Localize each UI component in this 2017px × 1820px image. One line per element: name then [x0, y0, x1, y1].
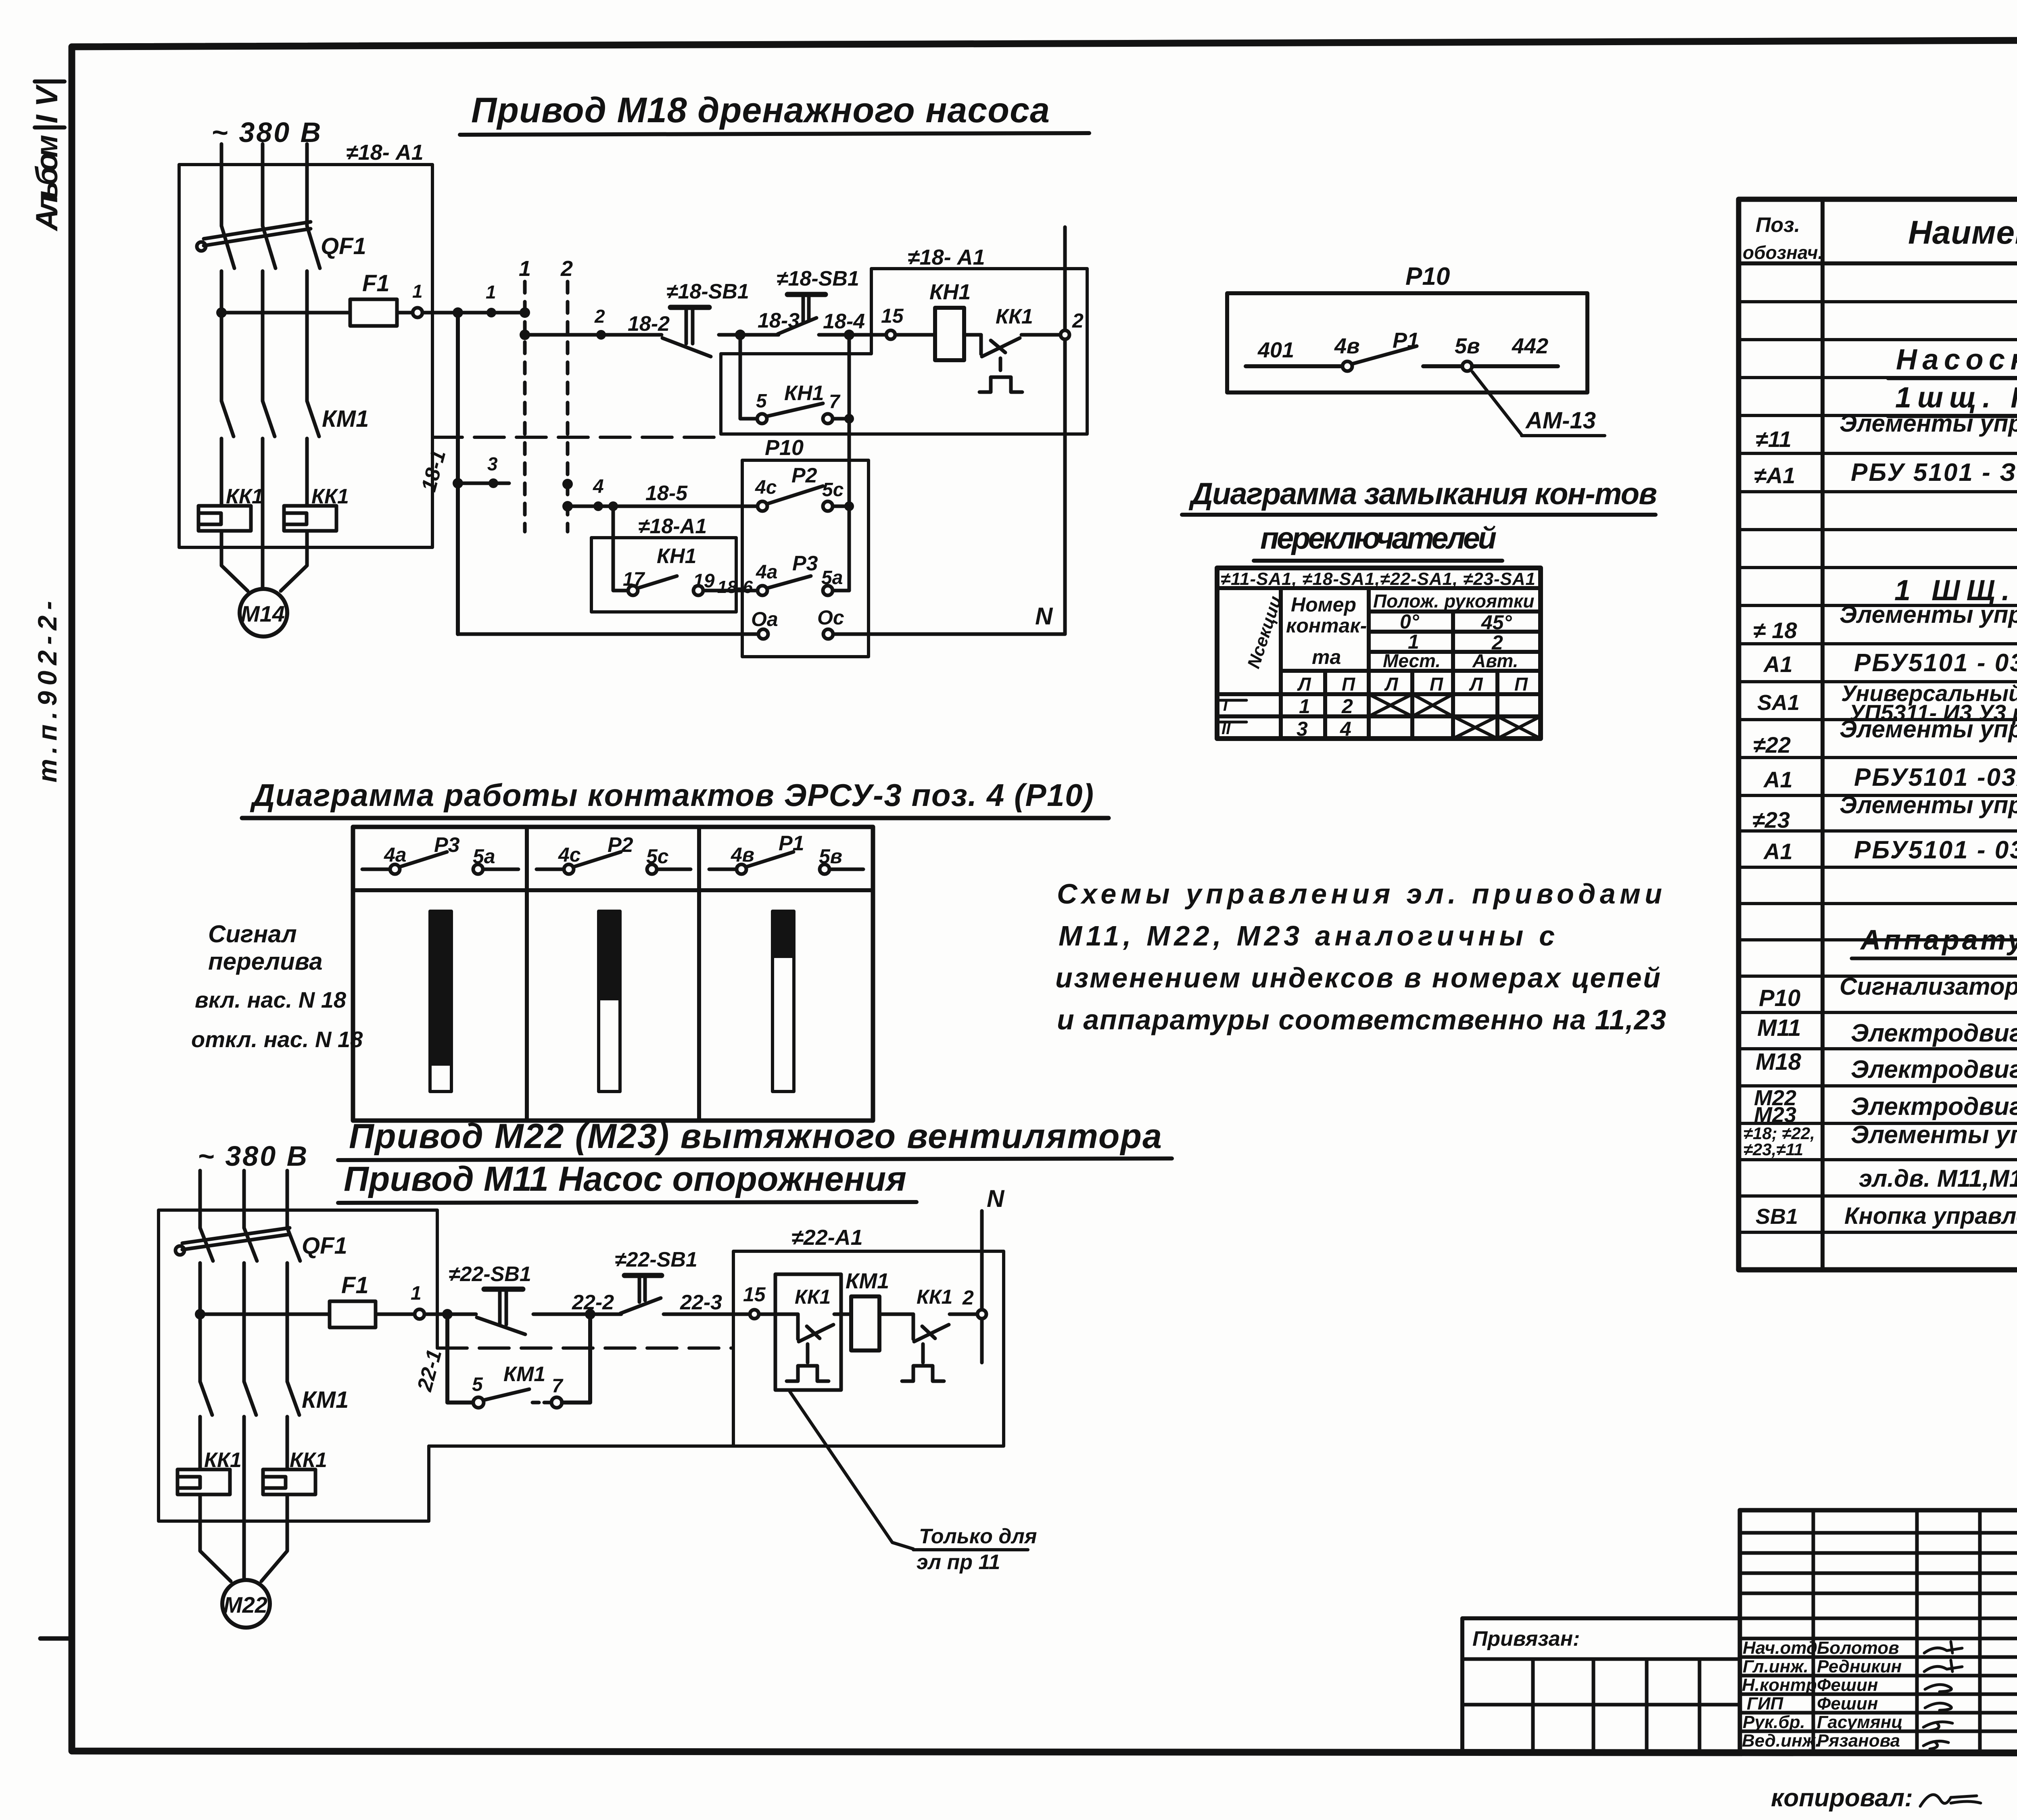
- section head: 1 ШЩ. Панель Б: [1894, 574, 2017, 607]
- svg-text:вкл. нас. N 18: вкл. нас. N 18: [195, 987, 347, 1012]
- svg-text:5: 5: [472, 1374, 483, 1395]
- boundary link line (panel to block): [432, 436, 721, 439]
- svg-text:П: П: [1342, 674, 1355, 695]
- svg-text:Фешин: Фешин: [1817, 1694, 1878, 1714]
- title: Привод М18 дренажного насоса: [460, 90, 1089, 135]
- aux contact KH1 5-7 (self hold): [756, 382, 854, 424]
- pushbutton SB1 stop (NC, #18-SB1): [662, 280, 749, 357]
- terminal 15 of block A1: [881, 305, 904, 339]
- circuit breaker QF1 (M22): [175, 1228, 347, 1261]
- motor M14: [240, 589, 287, 637]
- svg-text:Диаграмма замыкания кон-тов: Диаграмма замыкания кон-тов: [1188, 477, 1659, 511]
- svg-text:5с: 5с: [822, 479, 844, 501]
- switch SA1 section II (dashed): [560, 257, 573, 532]
- svg-text:Только для: Только для: [919, 1525, 1037, 1548]
- junction: wire 18-1 tap: [453, 307, 463, 318]
- svg-text:КК1: КК1: [290, 1448, 327, 1472]
- signature grid names: [1742, 1638, 1903, 1751]
- svg-text:М14: М14: [241, 601, 285, 626]
- svg-text:Р10: Р10: [765, 436, 804, 460]
- svg-text:Рук.бр.: Рук.бр.: [1743, 1712, 1805, 1732]
- svg-text:КК1: КК1: [917, 1286, 952, 1308]
- boundary link line (panel to block, M22): [437, 1346, 733, 1350]
- label wire 18-3: [758, 309, 800, 332]
- svg-text:≠22-А1: ≠22-А1: [791, 1225, 863, 1250]
- contactor KM1 main contacts (M22): [200, 1382, 349, 1415]
- block box #18-A1 (interlock): [591, 515, 736, 612]
- svg-text:Кнопка управления ПКЕ 21: Кнопка управления ПКЕ 212 - 2: [1844, 1203, 2017, 1229]
- svg-text:N: N: [1035, 603, 1053, 630]
- svg-text:копировал:: копировал:: [1771, 1784, 1913, 1812]
- label #18-A1: [346, 140, 424, 165]
- level bar P1: [773, 911, 794, 1092]
- wire: coil to thermal contact (M22): [879, 1313, 913, 1316]
- wire: stop to start button: [719, 333, 779, 337]
- margin label: Альбом IV (rotated): [30, 81, 65, 232]
- svg-text:Альбом: Альбом: [30, 135, 64, 232]
- svg-text:18-6: 18-6: [717, 577, 753, 597]
- parts list table frame: [1739, 199, 2017, 1270]
- thermal relay NC contact KK1 (M18): [979, 305, 1061, 392]
- wire: Oc to N: [833, 632, 1065, 636]
- svg-text:≠22: ≠22: [1753, 732, 1791, 758]
- svg-text:15: 15: [881, 305, 904, 327]
- junction: self-hold return joins row: [585, 1309, 595, 1319]
- svg-text:442: 442: [1512, 334, 1548, 358]
- svg-text:Привод М22 (М23) вытяжного: Привод М22 (М23) вытяжного вентилятора: [349, 1117, 1164, 1156]
- svg-text:эл пр 11: эл пр 11: [917, 1551, 1000, 1574]
- circuit breaker QF1 (M18): [197, 222, 366, 268]
- svg-text:5: 5: [756, 390, 767, 412]
- section head: 1шщ. Панель 1: [1888, 382, 2017, 416]
- wire: phase L1 mid: [220, 271, 223, 401]
- svg-text:РБУ5101 - 03А2Л: РБУ5101 - 03А2Л: [1854, 649, 2017, 677]
- svg-text:Л: Л: [1469, 674, 1483, 695]
- wire: row 3 stub from 18-1: [453, 453, 509, 488]
- section head: Аппаратура по месту: [1852, 924, 2017, 958]
- svg-text:4: 4: [1340, 718, 1351, 740]
- row #18 #22 #23 #11: [1743, 1121, 2017, 1159]
- svg-text:QF1: QF1: [302, 1233, 347, 1259]
- svg-text:Поз.: Поз.: [1756, 213, 1800, 237]
- svg-text:Электродвигатель ~ 380В: Электродвигатель ~ 380В: [1851, 1019, 2017, 1047]
- svg-text:2: 2: [594, 306, 605, 327]
- svg-text:1: 1: [411, 1283, 422, 1304]
- wire: P10 column (vertical): [848, 335, 851, 591]
- svg-text:контак-: контак-: [1286, 614, 1367, 637]
- svg-text:2: 2: [962, 1286, 974, 1309]
- svg-text:КМ1: КМ1: [503, 1363, 545, 1386]
- svg-text:18-4: 18-4: [823, 310, 865, 333]
- svg-text:изменением индексов в номер: изменением индексов в номерах цепей: [1055, 962, 1660, 993]
- junction: feed tap (M22): [195, 1309, 205, 1319]
- svg-text:Электродвигатель ~ 380В: Электродвигатель ~ 380В: [1851, 1056, 2017, 1083]
- svg-text:Диаграмма работы контактов: Диаграмма работы контактов ЭРСУ-3 поз. 4…: [250, 777, 1095, 813]
- svg-text:Элементы управления эл дв М: Элементы управления эл дв М18: [1840, 601, 2017, 628]
- svg-text:Редникин: Редникин: [1817, 1657, 1902, 1676]
- svg-text:обознач.: обознач.: [1743, 242, 1823, 263]
- svg-text:Рязанова: Рязанова: [1817, 1731, 1900, 1751]
- svg-text:АМ-13: АМ-13: [1525, 407, 1596, 434]
- svg-text:М22: М22: [223, 1592, 267, 1618]
- wire: start to block (M22): [664, 1313, 750, 1316]
- wire: fuse to terminal 1: [397, 311, 413, 315]
- wire: feed to fuse F1 (M22): [200, 1313, 330, 1316]
- footer: копировал: [1771, 1784, 1981, 1812]
- row A1 (03A2Н): [1763, 764, 2017, 792]
- svg-text:18-5: 18-5: [645, 482, 688, 505]
- junction: aux branch tap: [735, 330, 745, 340]
- parts table header: [1743, 213, 2017, 263]
- svg-text:Сигнал: Сигнал: [208, 920, 297, 948]
- row #23: [1752, 791, 2017, 833]
- svg-text:1: 1: [1299, 695, 1310, 718]
- junction: P10 column tap: [844, 330, 854, 340]
- wire: bottom return to Oa: [458, 632, 758, 636]
- svg-text:N: N: [987, 1185, 1005, 1212]
- thermal relay heater KK1 (phase L1, M22): [177, 1448, 242, 1494]
- junction: node 2 on control row: [594, 306, 606, 340]
- svg-text:Гл.инж.: Гл.инж.: [1743, 1657, 1808, 1676]
- svg-text:Элементы управления: Элементы управления: [1851, 1121, 2017, 1149]
- junction: branch 22-1: [442, 1309, 453, 1319]
- wire: phases lower (M22): [200, 1417, 287, 1548]
- wire: phase L3 mid: [305, 271, 309, 401]
- row A1 (03A2Е): [1763, 836, 2017, 865]
- wire: phase L1 top: [220, 144, 223, 226]
- diagram contact P2 (4с-5с): [537, 833, 691, 874]
- label wire 18-2: [628, 312, 670, 336]
- svg-text:IV: IV: [30, 84, 64, 123]
- svg-text:2: 2: [1341, 695, 1353, 718]
- fuse F1 (M22): [330, 1272, 376, 1327]
- svg-text:≠11-SА1, ≠18-SА1,≠22-SА1, ≠23: ≠11-SА1, ≠18-SА1,≠22-SА1, ≠23-SА1: [1221, 569, 1535, 589]
- terminal circle after F1: [413, 308, 422, 317]
- svg-text:1: 1: [486, 282, 496, 303]
- svg-text:≠18-А1: ≠18-А1: [638, 515, 707, 538]
- svg-text:4с: 4с: [755, 477, 777, 498]
- junction: node 1 on feed wire: [486, 282, 496, 317]
- svg-text:Элементы управления эл. дв.: Элементы управления эл. дв. М22: [1840, 716, 2017, 743]
- wire: phases mid (M22): [200, 1263, 287, 1382]
- svg-text:Р2: Р2: [791, 464, 817, 487]
- callout: Только для эл пр 11: [790, 1392, 1037, 1574]
- boxed thermal contact KK1 (only for drive 11): [775, 1274, 851, 1390]
- contact P3 (4a-5a) in P10: [756, 552, 849, 595]
- svg-text:SА1: SА1: [1757, 691, 1800, 715]
- switch contacts table (SA1): [1217, 568, 1541, 739]
- side labels of level diagram: [191, 920, 363, 1052]
- wire: branch to interlock contact: [613, 506, 628, 591]
- supply label ~380В (M18): [211, 117, 322, 148]
- svg-text:3: 3: [487, 453, 498, 474]
- svg-text:≠22-SВ1: ≠22-SВ1: [449, 1263, 531, 1286]
- wire: start button to box: [819, 333, 886, 337]
- junction: feed tap on phase L1: [216, 307, 227, 318]
- svg-text:М11, М22, М23 аналогичны с: М11, М22, М23 аналогичны с: [1059, 920, 1555, 952]
- svg-text:≠А1: ≠А1: [1754, 463, 1795, 488]
- terminal 1 (M22): [411, 1283, 424, 1319]
- pushbutton SB1 stop (NC, #22-SB1): [449, 1263, 531, 1334]
- svg-text:КМ1: КМ1: [322, 406, 369, 432]
- switch table texts: [1217, 591, 1534, 740]
- svg-text:КК1: КК1: [226, 485, 263, 508]
- svg-text:КК1: КК1: [311, 485, 349, 508]
- svg-text:и аппаратуры соответственно: и аппаратуры соответственно на 11,23: [1057, 1004, 1666, 1035]
- svg-text:F1: F1: [341, 1272, 369, 1298]
- svg-text:Р10: Р10: [1405, 263, 1450, 290]
- svg-text:7: 7: [829, 391, 841, 413]
- svg-text:перелива: перелива: [208, 948, 323, 975]
- label wire 22-2: [572, 1291, 614, 1314]
- row эл.дв. М11,М18,М22,М23: [1859, 1165, 2017, 1196]
- relay coil KM1 (M22): [846, 1269, 889, 1350]
- svg-text:≠18-SВ1: ≠18-SВ1: [777, 267, 859, 290]
- svg-text:КН1: КН1: [929, 280, 971, 304]
- svg-text:Аппаратура по месту: Аппаратура по месту: [1860, 924, 2017, 956]
- svg-text:15: 15: [743, 1283, 766, 1306]
- wire: terminal to switch column: [422, 311, 525, 315]
- wire: phase L2 lower: [261, 438, 265, 561]
- wire: phase L2 top (M22): [242, 1171, 246, 1228]
- svg-text:18-2: 18-2: [628, 312, 670, 336]
- switch table crosses (closed contact marks): [1369, 694, 1541, 739]
- svg-text:Насосная станция: Насосная станция: [1896, 344, 2017, 376]
- svg-text:Вед.инж.: Вед.инж.: [1742, 1731, 1820, 1751]
- svg-text:Л: Л: [1384, 674, 1399, 695]
- margin label: т.п.902-2- (rotated): [32, 601, 62, 783]
- svg-text:22-1: 22-1: [413, 1347, 446, 1394]
- svg-text:А1: А1: [1763, 839, 1793, 864]
- row M22 M23: [1754, 1086, 2017, 1127]
- svg-text:Авт.: Авт.: [1472, 650, 1518, 671]
- motor M22: [222, 1580, 270, 1628]
- level sensor block P10 (in circuit): [742, 436, 869, 657]
- label N (M18): [1035, 603, 1053, 630]
- svg-text:Ос: Ос: [817, 606, 844, 629]
- svg-text:1шщ. Панель 1: 1шщ. Панель 1: [1895, 382, 2017, 414]
- wire: feed to fuse F1: [221, 311, 350, 315]
- svg-text:Н.контр: Н.контр: [1742, 1675, 1817, 1695]
- svg-text:~ 380 B: ~ 380 B: [198, 1140, 309, 1172]
- svg-text:Сигнализатор уровня ЭРСУ-3: Сигнализатор уровня ЭРСУ-3: [1840, 973, 2017, 1000]
- svg-text:5в: 5в: [1455, 334, 1480, 358]
- svg-text:Болотов: Болотов: [1817, 1638, 1899, 1658]
- row #22: [1753, 716, 2017, 758]
- contact P1 (4в-5в) inside P10: [1246, 328, 1558, 371]
- svg-text:Фешин: Фешин: [1817, 1675, 1878, 1695]
- level bar P3: [430, 911, 451, 1092]
- svg-text:3: 3: [1297, 718, 1308, 740]
- wire N (vertical, M18): [1063, 227, 1067, 634]
- row M11: [1757, 1015, 2017, 1047]
- svg-text:ГИП: ГИП: [1747, 1694, 1784, 1714]
- svg-text:2: 2: [560, 257, 573, 281]
- svg-text:22-2: 22-2: [572, 1291, 614, 1314]
- wire N (M22): [980, 1211, 984, 1363]
- wire: terminal to stop button (M22): [424, 1313, 476, 1316]
- svg-text:КН1: КН1: [784, 382, 824, 405]
- row #A1: [1754, 459, 2017, 488]
- svg-text:Элементы управления эл дв М: Элементы управления эл дв М11: [1840, 410, 2017, 437]
- svg-text:Р10: Р10: [1759, 985, 1800, 1011]
- format tick mark on left border: [40, 1636, 73, 1641]
- svg-text:Л: Л: [1297, 674, 1311, 695]
- svg-text:П: П: [1514, 674, 1528, 695]
- panel box #18-A1 (power section): [179, 165, 432, 547]
- thermal relay NC contact KK1 (M22): [902, 1286, 977, 1381]
- small table: Привязан: [1462, 1618, 1740, 1751]
- svg-text:РБУ5101 - 03А2Е: РБУ5101 - 03А2Е: [1854, 836, 2017, 864]
- wire: stop to start (M22): [533, 1313, 621, 1316]
- svg-text:Наименование: Наименование: [1908, 214, 2017, 251]
- svg-text:≠18- А1: ≠18- А1: [346, 140, 424, 165]
- row #11: [1756, 410, 2017, 452]
- row SB1: [1756, 1203, 2017, 1265]
- svg-text:А1: А1: [1763, 767, 1793, 792]
- svg-text:М23: М23: [1754, 1103, 1796, 1127]
- row P10: [1759, 973, 2017, 1016]
- wire: motor leads M14: [221, 531, 307, 591]
- svg-text:≠18- А1: ≠18- А1: [908, 245, 985, 269]
- svg-text:F1: F1: [362, 270, 390, 296]
- node 2 terminal (M22): [962, 1286, 986, 1319]
- panel box enclosure (M22 power section): [159, 1210, 437, 1521]
- svg-text:≠22-SВ1: ≠22-SВ1: [615, 1248, 697, 1271]
- pushbutton SB1 start (NO, #18-SB1): [777, 267, 859, 334]
- contact P2 (4c-5c) in P10: [755, 464, 854, 511]
- svg-text:≠23: ≠23: [1752, 807, 1790, 833]
- thermal relay heater KK1 (phase L3, M22): [263, 1448, 327, 1494]
- svg-text:КМ1: КМ1: [302, 1387, 349, 1413]
- svg-text:≠23,≠11: ≠23,≠11: [1743, 1140, 1803, 1159]
- wire: phase L2 top: [261, 144, 265, 226]
- wire into block: [759, 1313, 798, 1316]
- heading: Диаграмма работы контактов ЭРСУ-3 поз.4 (Р10): [242, 777, 1109, 818]
- svg-text:РБУ 5101 - ЗЗА2В: РБУ 5101 - ЗЗА2В: [1851, 459, 2017, 486]
- wire 18-6: [703, 577, 758, 597]
- heading: Диаграмма замыкания кон-тов переключателей: [1182, 477, 1659, 561]
- diagram contact P3 (4а-5а): [362, 833, 518, 874]
- svg-text:4а: 4а: [756, 561, 777, 583]
- svg-text:Р3: Р3: [792, 552, 818, 575]
- row #18: [1753, 601, 2017, 643]
- svg-text:П: П: [1430, 674, 1443, 695]
- note text: Схемы управления эл.приводами ...: [1055, 878, 1666, 1035]
- svg-text:РБУ5101 -03А2Н: РБУ5101 -03А2Н: [1854, 764, 2017, 791]
- wire: control row from SA1 to stop button: [525, 333, 662, 337]
- svg-text:≠ 18: ≠ 18: [1753, 618, 1797, 643]
- svg-text:1: 1: [519, 257, 531, 281]
- svg-text:22-3: 22-3: [680, 1291, 722, 1314]
- svg-text:та: та: [1312, 646, 1341, 668]
- svg-text:переключателей: переключателей: [1260, 521, 1498, 555]
- svg-text:Мест.: Мест.: [1383, 650, 1441, 671]
- svg-text:1: 1: [412, 281, 423, 302]
- svg-text:2: 2: [1072, 309, 1084, 332]
- diagram contact P1 (4в-5в): [709, 832, 863, 874]
- wire: row 18-5: [568, 476, 758, 511]
- callout AM-13: [1472, 372, 1605, 436]
- svg-text:4в: 4в: [1334, 334, 1360, 358]
- svg-text:т.п.902-2-: т.п.902-2-: [32, 601, 62, 783]
- thermal relay heater KK1 (phase L1, M18): [198, 485, 263, 531]
- svg-text:Схемы управления эл. привода: Схемы управления эл. приводами: [1057, 878, 1662, 910]
- svg-text:Электродвигатель ~ 380В: Электродвигатель ~ 380В: [1851, 1093, 2017, 1121]
- svg-text:18-1: 18-1: [417, 448, 451, 495]
- row SA1: [1757, 680, 2017, 725]
- svg-text:SВ1: SВ1: [1756, 1204, 1798, 1229]
- svg-text:Элементы управления эл дв.: Элементы управления эл дв. М23: [1840, 791, 2017, 818]
- wire: phase L1 top (M22): [198, 1171, 202, 1228]
- relay coil KH1 (M18 contactor coil): [929, 280, 971, 360]
- ERSU contacts work diagram box: [353, 827, 873, 1121]
- label 1 (terminal above circle): [412, 281, 423, 302]
- aux contact KM1 5-7 (M22 self hold): [472, 1314, 590, 1408]
- svg-text:Привод М18 дренажного насос: Привод М18 дренажного насоса: [471, 90, 1052, 130]
- svg-text:М18: М18: [1756, 1049, 1802, 1075]
- svg-text:КК1: КК1: [996, 305, 1033, 328]
- terminal 15 (M22): [743, 1283, 766, 1319]
- terminals Oa Oc of P10: [751, 606, 844, 639]
- svg-text:401: 401: [1257, 338, 1294, 362]
- block box #22-A1: [429, 1225, 1004, 1446]
- svg-text:М11: М11: [1757, 1015, 1801, 1041]
- svg-text:Полож. рукоятки: Полож. рукоятки: [1373, 591, 1534, 612]
- svg-text:7: 7: [552, 1375, 564, 1397]
- svg-text:QF1: QF1: [321, 233, 366, 259]
- level sensor P10 (stand-alone view): [1227, 263, 1587, 392]
- wire 18-1 (vertical down): [417, 313, 458, 634]
- signature squiggles: [1923, 1642, 1962, 1749]
- svg-text:КН1: КН1: [657, 545, 696, 568]
- svg-text:4: 4: [593, 476, 604, 497]
- level bar P2: [599, 911, 620, 1092]
- label wire 22-3: [680, 1291, 722, 1314]
- wire: motor leads M22: [200, 1494, 287, 1581]
- fuse F1 (M18): [350, 270, 397, 326]
- wire: phase L3 lower: [305, 438, 309, 506]
- pushbutton SB1 start (NO, #22-SB1): [615, 1248, 697, 1313]
- title: Привод М22 (М23) вытяжного вентилятора: [338, 1117, 1172, 1160]
- svg-text:КК1: КК1: [795, 1286, 831, 1308]
- block box #18-A1 (control): [721, 245, 1087, 434]
- switch SA1 section I (dashed): [519, 257, 531, 532]
- svg-text:Привод М11 Насос опорожнени: Привод М11 Насос опорожнения: [344, 1160, 908, 1198]
- interlock contact KH1 17-19: [623, 569, 715, 595]
- svg-text:45°: 45°: [1481, 611, 1512, 634]
- title block: signature grid: [1740, 1510, 2017, 1751]
- svg-text:≠18-SВ1: ≠18-SВ1: [666, 280, 749, 303]
- node 2 terminal circle (to N): [1061, 309, 1084, 339]
- svg-text:0°: 0°: [1400, 610, 1420, 633]
- svg-text:откл. нас. N 18: откл. нас. N 18: [191, 1027, 363, 1052]
- svg-text:эл.дв. М11,М18, М22, М23: эл.дв. М11,М18, М22, М23: [1859, 1165, 2017, 1192]
- svg-text:Оа: Оа: [751, 608, 778, 630]
- contactor KM1 main contacts (M18): [221, 401, 369, 436]
- wire: phase L3 top (M22): [286, 1171, 289, 1228]
- label N (M22): [987, 1185, 1005, 1212]
- label wire 18-4: [823, 310, 865, 333]
- wire: fuse to terminal 1 (M22): [376, 1313, 415, 1316]
- svg-text:1: 1: [1408, 630, 1419, 653]
- svg-text:Гасумянц: Гасумянц: [1817, 1712, 1903, 1732]
- svg-text:Привязан:: Привязан:: [1472, 1627, 1580, 1651]
- wire: phase L3 top: [305, 144, 309, 226]
- svg-text:КМ1: КМ1: [846, 1269, 889, 1293]
- wire: aux contact branch down: [740, 335, 757, 419]
- svg-text:Нач.отд: Нач.отд: [1743, 1638, 1817, 1658]
